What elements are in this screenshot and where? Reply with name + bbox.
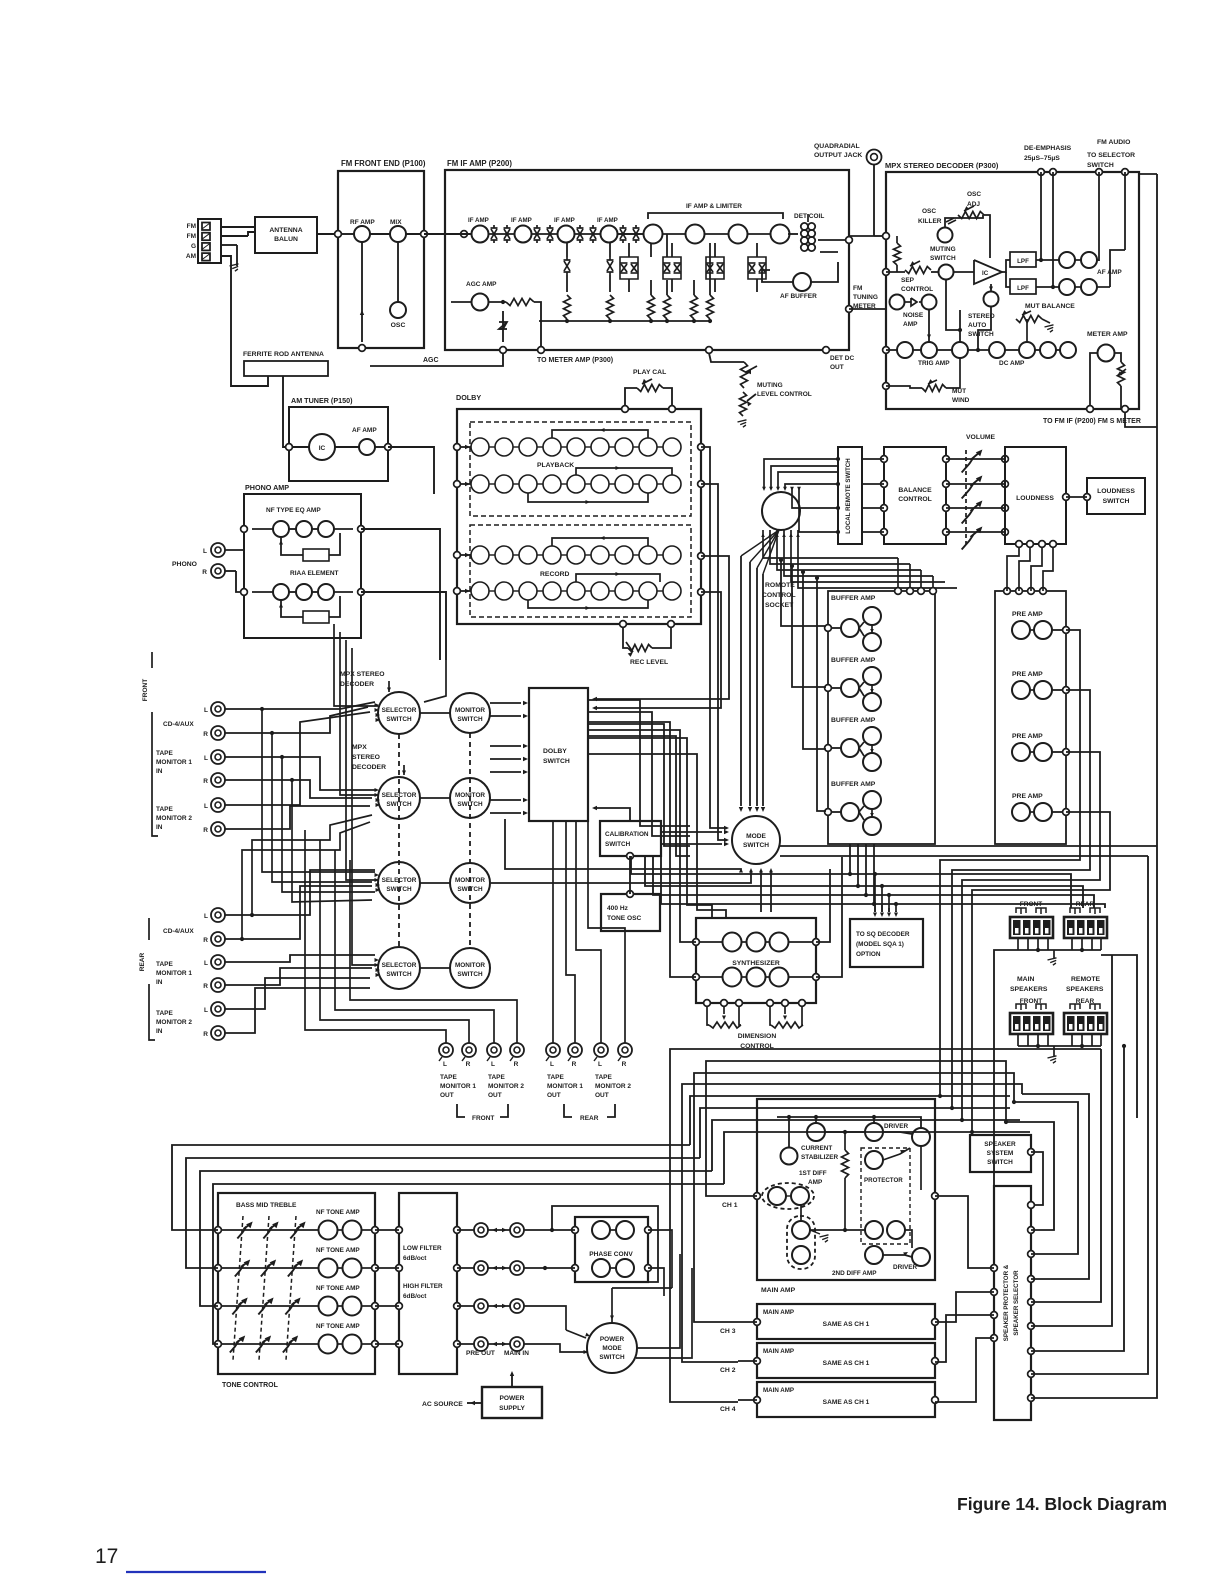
am tuner feed to selector: [420, 494, 434, 710]
main amp box CH 2: [757, 1343, 935, 1378]
synthesizer box: [696, 918, 816, 1003]
wire AM terminal to ferrite antenna: [221, 256, 268, 386]
svg-text:IF AMP: IF AMP: [511, 217, 532, 224]
svg-text:R: R: [202, 569, 207, 576]
svg-text:OUT: OUT: [595, 1092, 609, 1099]
RIAA element 2: [303, 611, 329, 623]
svg-text:MONITOR 1: MONITOR 1: [156, 759, 192, 766]
svg-text:MODE: MODE: [746, 833, 766, 840]
svg-text:CH 2: CH 2: [720, 1367, 736, 1374]
mut wind pot: [922, 385, 946, 392]
svg-text:KILLER: KILLER: [918, 218, 942, 225]
svg-text:FM AUDIO: FM AUDIO: [1097, 139, 1130, 146]
svg-text:SWITCH: SWITCH: [543, 758, 570, 765]
selector switch 2: [378, 777, 420, 819]
svg-text:PLAY CAL: PLAY CAL: [633, 369, 666, 376]
svg-text:L: L: [443, 1061, 447, 1068]
svg-text:OUT: OUT: [547, 1092, 561, 1099]
selector box right nodes: [1028, 1202, 1035, 1209]
svg-text:SYSTEM: SYSTEM: [987, 1150, 1014, 1157]
svg-text:TO SELECTOR: TO SELECTOR: [1087, 152, 1135, 159]
svg-text:IF AMP: IF AMP: [554, 217, 575, 224]
AGC diode: [502, 311, 504, 342]
svg-text:POWER: POWER: [500, 1395, 525, 1402]
wire selector node 8: [1031, 856, 1148, 1374]
power supply arrow up: [511, 1374, 513, 1387]
balance edge nodes: [881, 456, 888, 463]
svg-text:CH 4: CH 4: [720, 1406, 736, 1413]
rear bracket: [564, 1104, 572, 1117]
svg-text:PHASE CONV: PHASE CONV: [589, 1251, 633, 1258]
dolby switch box: [529, 688, 588, 821]
playback row 1 amps: [471, 438, 489, 456]
svg-text:400 Hz: 400 Hz: [607, 905, 629, 912]
svg-text:R: R: [514, 1061, 519, 1068]
wires under mode switch to rear terminal block: [631, 856, 1071, 908]
power mode wires: [612, 1287, 672, 1289]
svg-text:MAIN: MAIN: [1017, 976, 1034, 983]
svg-text:IF AMP: IF AMP: [468, 217, 489, 224]
monitor switch 4: [450, 948, 490, 988]
svg-text:SPEAKERS: SPEAKERS: [1066, 986, 1104, 993]
audio amps after LPF: [1036, 259, 1059, 261]
svg-text:MONITOR 1: MONITOR 1: [156, 970, 192, 977]
svg-text:L: L: [550, 1061, 554, 1068]
svg-text:MAIN IN: MAIN IN: [504, 1350, 529, 1357]
svg-text:IC: IC: [982, 270, 989, 277]
svg-text:TAPE: TAPE: [156, 961, 174, 968]
svg-text:LOW FILTER: LOW FILTER: [403, 1245, 442, 1252]
terminal block rear top: [1064, 917, 1107, 938]
svg-text:PLAYBACK: PLAYBACK: [537, 462, 574, 469]
muting switch: [938, 228, 953, 243]
svg-text:OPTION: OPTION: [856, 951, 881, 958]
front bracket: [457, 1104, 465, 1117]
svg-text:OSC: OSC: [391, 322, 406, 329]
interstage filters: [491, 227, 498, 229]
selector input arrows 2: [375, 788, 380, 792]
svg-text:CURRENT: CURRENT: [801, 1145, 832, 1152]
svg-text:17: 17: [95, 1545, 118, 1568]
rear inputs long verticals to front selectors: [252, 815, 372, 915]
svg-text:SPEAKER PROTECTOR &: SPEAKER PROTECTOR &: [1003, 1264, 1010, 1341]
svg-text:PHONO: PHONO: [172, 561, 197, 568]
wire selector node 5 to ch4 bus: [1031, 1049, 1101, 1302]
svg-text:MUT BALANCE: MUT BALANCE: [1025, 303, 1075, 310]
speaker selector left wires from main amps: [935, 1196, 994, 1268]
dc amp row: [989, 342, 1005, 358]
wire speaker system switch: [1031, 1152, 1043, 1205]
AF buffer: [793, 273, 811, 291]
rec level pot: [620, 621, 627, 628]
svg-text:REMOTE: REMOTE: [1071, 976, 1101, 983]
wire AM tuner output: [388, 447, 434, 494]
wire front end to IF strip: [461, 231, 468, 238]
P200 bottom nodes: [500, 347, 507, 354]
svg-text:METER AMP: METER AMP: [1087, 331, 1128, 338]
svg-text:AM: AM: [186, 253, 196, 260]
left edge resistor: [883, 233, 890, 240]
monitor switch 1: [450, 693, 490, 733]
svg-text:TONE CONTROL: TONE CONTROL: [222, 1382, 279, 1389]
svg-text:LPF: LPF: [1017, 285, 1029, 292]
svg-text:BALANCE: BALANCE: [898, 487, 932, 494]
svg-text:OUTPUT JACK: OUTPUT JACK: [814, 152, 862, 159]
svg-text:L: L: [204, 960, 208, 967]
svg-text:TAPE: TAPE: [156, 1010, 174, 1017]
svg-text:R: R: [203, 1031, 208, 1038]
fm audio output wires: [1098, 172, 1100, 261]
phono amp channel R: [273, 584, 289, 600]
svg-text:G: G: [191, 243, 196, 250]
rear tape out jacks: [546, 1043, 560, 1057]
svg-text:SOCKET: SOCKET: [765, 602, 794, 609]
local remote switch: [838, 447, 862, 544]
svg-text:PRE AMP: PRE AMP: [1012, 671, 1043, 678]
svg-text:CD-4/AUX: CD-4/AUX: [163, 721, 194, 728]
svg-text:FRONT: FRONT: [472, 1115, 494, 1122]
record dashed box: [470, 525, 691, 617]
svg-text:DET COIL: DET COIL: [794, 213, 824, 220]
buffer outputs down to mode area: [881, 580, 893, 616]
main amp box CH 4: [757, 1382, 935, 1417]
svg-text:AF BUFFER: AF BUFFER: [780, 293, 817, 300]
svg-text:MAIN AMP: MAIN AMP: [761, 1287, 796, 1294]
sep control pot: [905, 267, 931, 274]
svg-text:RECORD: RECORD: [540, 571, 570, 578]
svg-text:VOLUME: VOLUME: [966, 434, 996, 441]
ch1 output node: [932, 1193, 939, 1200]
terminal bus join: [1122, 1044, 1126, 1048]
svg-text:MODE: MODE: [602, 1345, 622, 1352]
wire selector node 2 to main amp bus: [1006, 1122, 1054, 1230]
svg-text:MAIN AMP: MAIN AMP: [763, 1387, 794, 1394]
svg-text:CALIBRATION: CALIBRATION: [605, 831, 649, 838]
svg-text:NF TYPE EQ AMP: NF TYPE EQ AMP: [266, 507, 321, 514]
svg-text:SPEAKER: SPEAKER: [984, 1141, 1016, 1148]
monitor 2 output stub: [484, 812, 505, 819]
mode switch bottom wires: [760, 880, 762, 912]
svg-text:DRIVER: DRIVER: [893, 1264, 918, 1271]
synthesizer amps row 1: [723, 933, 742, 952]
svg-text:2ND DIFF AMP: 2ND DIFF AMP: [832, 1270, 877, 1277]
svg-text:SWITCH: SWITCH: [386, 971, 412, 978]
muting level control: [709, 353, 744, 362]
svg-text:SWITCH: SWITCH: [930, 255, 956, 262]
svg-text:LPF: LPF: [1017, 258, 1029, 265]
loudness switch box: [1087, 478, 1145, 514]
RIAA element: [303, 549, 329, 561]
svg-text:IN: IN: [156, 979, 163, 986]
bottom protector amps: [865, 1221, 883, 1239]
svg-text:(MODEL SQA 1): (MODEL SQA 1): [856, 941, 904, 948]
svg-text:DET DC: DET DC: [830, 355, 855, 362]
svg-text:FM IF AMP (P200): FM IF AMP (P200): [447, 159, 512, 168]
wire selector node 6: [1031, 955, 1112, 1326]
ch1 input node: [754, 1193, 761, 1200]
stereo auto switch: [984, 292, 999, 307]
wire quad jack down: [873, 164, 875, 236]
svg-text:AGC AMP: AGC AMP: [466, 281, 497, 288]
playback row 1 wires: [457, 446, 471, 448]
svg-text:NF TONE AMP: NF TONE AMP: [316, 1247, 360, 1254]
svg-text:MPX STEREO: MPX STEREO: [340, 671, 385, 678]
svg-text:LOUDNESS: LOUDNESS: [1016, 495, 1054, 502]
wire monitor 2 to mode switch: [505, 819, 741, 871]
wire selector node 3 to main amp bus: [1014, 1102, 1078, 1254]
mode switch input arrows left: [661, 831, 722, 833]
svg-text:L: L: [491, 1061, 495, 1068]
svg-text:SYNTHESIZER: SYNTHESIZER: [732, 960, 780, 967]
wire P200 to P300 y309: [849, 308, 886, 310]
speaker system switch box: [970, 1135, 1031, 1172]
oscillator OSC: [390, 302, 406, 318]
selector dashed gang line: [398, 734, 400, 947]
current stabilizer: [781, 1148, 798, 1165]
wire balun to front end: [317, 233, 338, 235]
sq decoder input arrows: [874, 902, 876, 912]
wire selector node 4 to main amp bus: [1022, 1094, 1089, 1279]
svg-text:DECODER: DECODER: [340, 681, 374, 688]
left bus risers to right: [690, 1096, 1010, 1145]
svg-text:SAME AS CH 1: SAME AS CH 1: [823, 1360, 870, 1367]
svg-text:STEREO: STEREO: [352, 754, 380, 761]
svg-text:MUT: MUT: [952, 388, 966, 395]
buffer output stubs: [849, 844, 851, 874]
svg-text:OSC: OSC: [922, 208, 936, 215]
synthesizer amps row 2: [723, 968, 742, 987]
ch1 wires internal: [786, 1195, 792, 1197]
svg-text:L: L: [598, 1061, 602, 1068]
IC demodulator triangle: [974, 260, 1002, 284]
bottom driver: [865, 1246, 883, 1264]
selector switch 1: [378, 692, 420, 734]
svg-text:DOLBY: DOLBY: [456, 393, 481, 402]
svg-text:DIMENSION: DIMENSION: [738, 1033, 777, 1040]
selector box left nodes: [991, 1265, 998, 1272]
terminal wires top: [1017, 938, 1019, 950]
svg-text:DRIVER: DRIVER: [884, 1123, 909, 1130]
feedback resistor: [842, 1150, 849, 1178]
antenna balun: [255, 217, 317, 253]
svg-text:MONITOR: MONITOR: [455, 962, 485, 969]
main amp ch1 box: [757, 1099, 935, 1280]
staircase lines from mode switch to right: [780, 845, 1157, 847]
svg-text:FM FRONT END (P100): FM FRONT END (P100): [341, 159, 426, 168]
quad coil filters: [564, 259, 571, 261]
de-emphasis wires: [1040, 172, 1042, 260]
svg-text:FM: FM: [187, 233, 196, 240]
svg-text:DECODER: DECODER: [352, 764, 386, 771]
calibration to dolby switch wire: [597, 808, 630, 821]
ground: [1053, 950, 1055, 958]
monitor dashed gang line: [469, 733, 471, 948]
wires into socket from top: [764, 459, 838, 489]
playback row 2 amps: [471, 475, 489, 493]
svg-text:DOLBY: DOLBY: [543, 748, 567, 755]
svg-text:TAPE: TAPE: [156, 806, 174, 813]
svg-text:MONITOR 1: MONITOR 1: [440, 1083, 476, 1090]
selector to monitor wire 3: [420, 882, 450, 884]
svg-text:DC AMP: DC AMP: [999, 360, 1025, 367]
selector to monitor wire 1: [420, 712, 450, 714]
svg-text:SPEAKERS: SPEAKERS: [1010, 986, 1048, 993]
rear input wires to selector switches: [225, 870, 375, 915]
svg-text:L: L: [204, 755, 208, 762]
svg-text:PHONO AMP: PHONO AMP: [245, 483, 289, 492]
svg-text:SWITCH: SWITCH: [386, 716, 412, 723]
svg-text:MONITOR 1: MONITOR 1: [547, 1083, 583, 1090]
main in wires right: [524, 1222, 560, 1230]
svg-text:OUT: OUT: [488, 1092, 502, 1099]
svg-text:TAPE: TAPE: [156, 750, 174, 757]
svg-text:OUT: OUT: [440, 1092, 454, 1099]
svg-text:CONTROL: CONTROL: [901, 286, 933, 293]
svg-text:MUTING: MUTING: [930, 246, 956, 253]
svg-text:TO FM IF (P200) FM S METER: TO FM IF (P200) FM S METER: [1043, 418, 1141, 425]
monitor switch 2: [450, 778, 490, 818]
svg-text:R: R: [622, 1061, 627, 1068]
svg-text:OSC: OSC: [967, 191, 981, 198]
tape out wires up: [305, 830, 446, 1043]
svg-text:1ST DIFF: 1ST DIFF: [799, 1170, 827, 1177]
wire tone osc to calibration: [627, 853, 634, 860]
mode switch: [732, 816, 780, 864]
front tape out jacks: [439, 1043, 453, 1057]
synthesizer output wires: [816, 869, 830, 942]
synthesizer bottom nodes: [704, 1000, 711, 1007]
svg-text:AC SOURCE: AC SOURCE: [422, 1401, 463, 1408]
terminal block rear bottom: [1064, 1013, 1107, 1034]
front input wires to selector switches: [225, 702, 375, 709]
wire ferrite to AM tuner: [283, 376, 289, 447]
trig amp row: [883, 347, 890, 354]
svg-text:SAME AS CH 1: SAME AS CH 1: [823, 1321, 870, 1328]
ground: [1053, 1046, 1055, 1056]
svg-text:SELECTOR: SELECTOR: [382, 707, 417, 714]
pre out main in jacks: [457, 1229, 474, 1231]
2nd diff amp: [792, 1221, 810, 1239]
main amp box CH 3: [757, 1304, 935, 1339]
wire loudness to switch: [1063, 494, 1070, 501]
svg-text:NF TONE AMP: NF TONE AMP: [316, 1209, 360, 1216]
terminal block front top: [1010, 917, 1053, 938]
svg-text:NF TONE AMP: NF TONE AMP: [316, 1323, 360, 1330]
loudness to preamp wires: [940, 548, 1019, 591]
power mode switch: [587, 1323, 637, 1373]
svg-text:REC LEVEL: REC LEVEL: [630, 659, 668, 666]
dolby switch outputs down to synthesizer: [588, 722, 670, 881]
svg-text:PRE AMP: PRE AMP: [1012, 793, 1043, 800]
low high filter box: [399, 1193, 457, 1374]
svg-text:R: R: [203, 937, 208, 944]
to SQ decoder box: [850, 919, 923, 967]
svg-text:FM: FM: [187, 223, 196, 230]
svg-text:AMP: AMP: [808, 1179, 823, 1186]
svg-text:MAIN AMP: MAIN AMP: [763, 1309, 794, 1316]
synthesizer input wires: [680, 893, 696, 942]
tone control box: [218, 1193, 375, 1374]
svg-text:MIX: MIX: [390, 219, 402, 226]
svg-text:SPEAKER SELECTOR: SPEAKER SELECTOR: [1013, 1270, 1020, 1336]
svg-text:MONITOR 2: MONITOR 2: [156, 1019, 192, 1026]
svg-text:PRE AMP: PRE AMP: [1012, 733, 1043, 740]
svg-text:25µS–75µS: 25µS–75µS: [1024, 155, 1060, 162]
wire fm s meter to margin: [1125, 413, 1157, 427]
svg-text:CONTROL: CONTROL: [762, 592, 796, 599]
ground: [236, 245, 238, 266]
svg-text:SELECTOR: SELECTOR: [382, 962, 417, 969]
svg-text:ANTENNA: ANTENNA: [269, 227, 302, 234]
selector input arrows 3: [375, 873, 380, 877]
meter amp pot: [1118, 362, 1125, 386]
svg-text:STABILIZER: STABILIZER: [801, 1154, 839, 1161]
terminal block front bottom: [1010, 1013, 1053, 1034]
LPF 1: [1010, 252, 1036, 267]
svg-text:BUFFER AMP: BUFFER AMP: [831, 717, 876, 724]
phase conv outputs: [648, 1230, 672, 1288]
svg-text:AF AMP: AF AMP: [352, 427, 377, 434]
pre amp box: [995, 591, 1066, 844]
main amp feeds from left: [706, 1061, 1006, 1196]
rails around lower speaker blocks: [994, 950, 1018, 1186]
svg-text:SAME AS CH 1: SAME AS CH 1: [823, 1399, 870, 1406]
wire antenna to balun: [221, 226, 255, 228]
svg-text:Figure 14. Block Diagram: Figure 14. Block Diagram: [957, 1494, 1167, 1514]
svg-text:FERRITE ROD ANTENNA: FERRITE ROD ANTENNA: [243, 351, 324, 358]
power supply box: [482, 1387, 542, 1418]
svg-text:MONITOR 2: MONITOR 2: [595, 1083, 631, 1090]
volume pots: [965, 450, 967, 544]
svg-text:TUNING: TUNING: [853, 294, 878, 301]
dimension control pots: [707, 1006, 709, 1025]
IF strip resistors to bus: [564, 295, 571, 319]
svg-text:R: R: [203, 983, 208, 990]
wire selector node 9: [1031, 846, 1157, 1398]
wires out of socket bottom: [763, 530, 898, 558]
wire dolby record out loop: [597, 556, 729, 699]
svg-text:SWITCH: SWITCH: [743, 842, 769, 849]
buffer input wires from socket bus: [781, 560, 826, 626]
svg-text:R: R: [203, 778, 208, 785]
svg-text:L: L: [204, 1007, 208, 1014]
tone pots: [237, 1225, 249, 1239]
svg-text:LEVEL CONTROL: LEVEL CONTROL: [757, 391, 812, 398]
svg-text:MONITOR: MONITOR: [455, 707, 485, 714]
svg-text:R: R: [572, 1061, 577, 1068]
svg-text:TAPE: TAPE: [488, 1074, 506, 1081]
remote control socket: [762, 492, 800, 530]
wire selector node 7: [1031, 1046, 1124, 1351]
svg-text:DE-EMPHASIS: DE-EMPHASIS: [1024, 145, 1072, 152]
svg-text:TO SQ DECODER: TO SQ DECODER: [856, 931, 910, 938]
svg-text:IC: IC: [319, 445, 326, 452]
phase conv input wires: [524, 1229, 575, 1231]
svg-text:REAR: REAR: [139, 952, 146, 971]
svg-text:QUADRADIAL: QUADRADIAL: [814, 143, 860, 150]
record row 1 amps: [471, 546, 489, 564]
svg-text:BUFFER AMP: BUFFER AMP: [831, 595, 876, 602]
svg-text:REAR: REAR: [580, 1115, 599, 1122]
svg-text:AMP: AMP: [903, 321, 918, 328]
svg-text:SWITCH: SWITCH: [987, 1159, 1013, 1166]
svg-text:CONTROL: CONTROL: [898, 496, 932, 503]
IF AMP & LIMITER bracket: [648, 213, 783, 219]
wire noise amp to trig: [928, 309, 930, 342]
svg-text:HIGH FILTER: HIGH FILTER: [403, 1283, 443, 1290]
svg-text:TAPE: TAPE: [595, 1074, 613, 1081]
svg-text:IN: IN: [156, 768, 163, 775]
